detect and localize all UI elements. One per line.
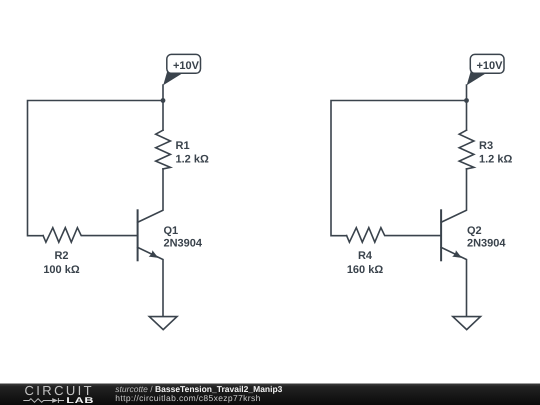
svg-text:Q1: Q1: [164, 225, 179, 237]
svg-text:R1: R1: [176, 140, 190, 152]
svg-text:R4: R4: [358, 250, 373, 262]
svg-text:2N3904: 2N3904: [467, 237, 506, 249]
svg-text:2N3904: 2N3904: [164, 237, 203, 249]
svg-text:1.2 kΩ: 1.2 kΩ: [176, 154, 209, 166]
svg-text:http://circuitlab.com/c85xezp7: http://circuitlab.com/c85xezp77krsh: [115, 393, 260, 403]
svg-text:LAB: LAB: [66, 396, 94, 405]
svg-text:R3: R3: [479, 140, 493, 152]
svg-text:1.2 kΩ: 1.2 kΩ: [479, 154, 512, 166]
svg-text:160 kΩ: 160 kΩ: [347, 264, 384, 276]
svg-text:R2: R2: [54, 250, 68, 262]
svg-text:100 kΩ: 100 kΩ: [43, 264, 80, 276]
svg-text:Q2: Q2: [467, 225, 482, 237]
